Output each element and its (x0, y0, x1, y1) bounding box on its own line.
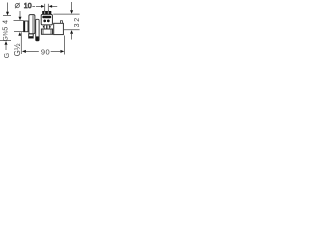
svg-text:G⅜: G⅜ (2, 30, 9, 41)
vertical ext line from knob down (20, 32, 22, 54)
dim dia10 line right (49, 5, 53, 8)
svg-text:G: G (4, 53, 11, 58)
wall square (54, 23, 64, 34)
svg-text:32: 32 (74, 16, 80, 27)
background (0, 0, 80, 64)
bottom outlet stub (29, 34, 34, 38)
label dia 10 (15, 3, 20, 8)
dim 54 top arrow (3, 3, 11, 16)
head rect (41, 14, 52, 25)
svg-text:90: 90 (41, 48, 50, 57)
svg-text:54: 54 (2, 17, 9, 30)
ext line top right (53, 13, 79, 15)
dim 90 right arrow (51, 50, 61, 52)
dim dia10 line left (32, 5, 35, 7)
knob bottom leader arrow (18, 32, 21, 36)
svg-text:10: 10 (24, 3, 32, 10)
knob top ext line (14, 20, 24, 22)
bottom step line (53, 34, 54, 36)
base rect (41, 29, 52, 34)
dim arrow at handle knob top (19, 11, 22, 20)
top pipe (44, 10, 46, 12)
bolt neck (43, 25, 45, 29)
compression nut (42, 11, 51, 14)
pipe extension ticks (44, 4, 46, 10)
dim 32 bottom arrow (70, 30, 73, 39)
wall ext line (64, 36, 66, 55)
knob bottom ext line (14, 31, 24, 33)
dim 90 left arrow (22, 50, 26, 53)
ext line right bottom (64, 29, 80, 31)
head dots (43, 20, 46, 23)
head band (42, 16, 51, 18)
svg-text:G½: G½ (13, 43, 22, 56)
dim 32 top arrow (70, 2, 73, 14)
side knob (24, 21, 28, 32)
wall-side bar (36, 19, 39, 41)
g38 up arrow (5, 41, 8, 50)
ext line left g38 (0, 40, 11, 42)
valve body (29, 15, 35, 34)
